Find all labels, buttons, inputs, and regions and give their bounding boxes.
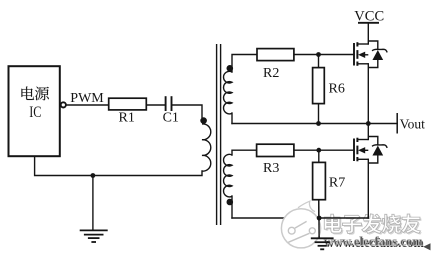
resistor R1 (109, 98, 147, 110)
wire R6 top (318, 55, 320, 68)
watermark logo right eye circle (309, 228, 315, 234)
transistor Q2 body arrow (358, 147, 365, 153)
watermark corner arrow (423, 243, 430, 250)
wire R7 bottom (318, 200, 320, 218)
wire top secondary bottom to Vout rail (231, 113, 233, 124)
transformer core (216, 44, 218, 225)
watermark logo slash upper (295, 221, 307, 228)
inductor secondary top winding (224, 71, 232, 114)
terminal PWM (61, 102, 66, 107)
junction dot R6 Vout rail (316, 121, 321, 126)
svg-text:R6: R6 (329, 81, 345, 96)
wire right ground stub (318, 218, 320, 238)
capacitor C1 (165, 96, 167, 111)
diode D1 body diode (373, 51, 382, 60)
wire R3 to gate Q2 (294, 149, 354, 151)
IC U1 电源IC box (9, 66, 60, 156)
ground primary (80, 230, 108, 242)
watermark logo left eye circle (288, 227, 295, 234)
resistor R3 (257, 144, 294, 156)
watermark text 电子发烧友 (324, 214, 422, 235)
junction dot R2 R6 gate (316, 52, 321, 57)
svg-text:R2: R2 (263, 66, 279, 81)
transistor Q2 MOSFET bottom (354, 137, 387, 164)
wire Q2 drain from Vout rail (367, 124, 369, 140)
inductor secondary bottom winding (224, 154, 232, 197)
IC U1 label 电源 (21, 87, 49, 101)
wire ground stub primary (92, 176, 94, 231)
wire bottom secondary to R3 (232, 150, 257, 155)
svg-text:R3: R3 (263, 161, 279, 176)
node phase dot secondary bottom (227, 199, 234, 206)
transistor Q1 body arrow (358, 52, 365, 58)
wire bottom secondary to bottom rail (231, 196, 233, 218)
watermark logo leaf stem (298, 201, 315, 211)
wire top secondary to R2 (232, 55, 257, 73)
wire IC box to bottom rail (35, 156, 202, 175)
wire Q1 source to Vout rail (367, 64, 369, 124)
diode D2 body diode (373, 146, 382, 155)
terminal VCC bar (358, 22, 379, 24)
svg-text:IC: IC (29, 103, 41, 121)
wire R7 top (318, 150, 320, 162)
resistor R2 (257, 49, 294, 61)
wire bottom rail (232, 217, 368, 219)
junction dot primary ground (91, 173, 96, 178)
wire R6 bottom (318, 104, 320, 124)
svg-text:www.elecfans.com: www.elecfans.com (324, 235, 423, 249)
junction dot R3 R7 gate (316, 148, 321, 153)
transistor Q1 MOSFET top (354, 41, 387, 68)
terminal Vout tick (396, 113, 398, 134)
resistor R6 (313, 68, 325, 104)
wire PWM output (66, 104, 109, 106)
wire Q2 source to bottom rail (367, 159, 369, 218)
junction dot R7 bottom rail (317, 216, 322, 221)
wire C1 to primary (172, 105, 202, 117)
wire R1 to C1 (146, 104, 165, 106)
node phase dot secondary top (227, 65, 234, 72)
resistor R7 (313, 162, 326, 199)
watermark logo circle (281, 209, 320, 248)
wire VCC lead (367, 23, 369, 44)
svg-text:R1: R1 (119, 111, 135, 126)
inductor primary winding (202, 124, 211, 171)
node phase dot primary (200, 117, 207, 124)
svg-text:R7: R7 (329, 176, 345, 191)
wire R2 to gate Q1 (294, 54, 354, 56)
wire Vout rail (232, 123, 397, 125)
svg-text:Vout: Vout (400, 116, 426, 131)
junction dot Q1 source Q2 drain (366, 121, 371, 126)
watermark logo slash lower (288, 233, 309, 242)
ground secondary (311, 200, 334, 250)
svg-text:PWM: PWM (70, 91, 104, 106)
watermark url www.elecfans.com (324, 235, 425, 250)
svg-text:C1: C1 (163, 111, 179, 126)
